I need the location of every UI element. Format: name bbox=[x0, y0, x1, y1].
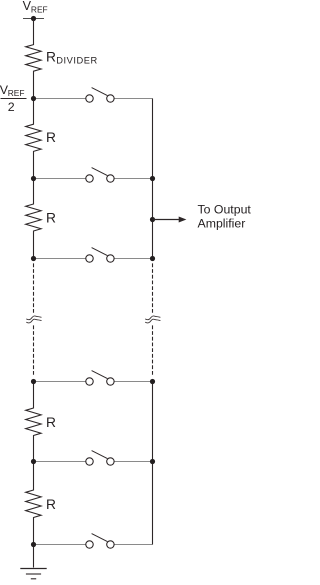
switch S2 bbox=[86, 168, 114, 183]
wire row1 left bbox=[34, 98, 86, 100]
svg-text:R: R bbox=[46, 415, 56, 430]
node VREF/2 junction dot bbox=[31, 96, 36, 101]
switch S5 bbox=[86, 451, 114, 466]
node left row6 junction dot bbox=[31, 542, 36, 547]
svg-text:REF: REF bbox=[31, 4, 48, 14]
node VREF label bbox=[23, 0, 48, 14]
svg-text:R: R bbox=[46, 497, 56, 512]
wire output arrow bbox=[153, 217, 187, 223]
node right row4 junction dot bbox=[150, 379, 155, 384]
node left row4 junction dot bbox=[31, 379, 36, 384]
wire row5 left bbox=[34, 461, 86, 463]
wire left rail with R zigzags (bottom section) bbox=[26, 382, 41, 568]
wire row3 right bbox=[114, 258, 152, 260]
node output junction dot bbox=[150, 217, 155, 222]
wire right rail solid (top section) bbox=[152, 99, 154, 259]
wire row2 left bbox=[34, 178, 86, 180]
svg-text:R: R bbox=[46, 211, 56, 226]
wire right rail dashed (upper) bbox=[152, 263, 154, 313]
node right row5 junction dot bbox=[150, 459, 155, 464]
wire row2 right bbox=[114, 178, 152, 180]
node output label bbox=[198, 203, 252, 231]
wire right rail dashed (lower) bbox=[152, 325, 154, 374]
node left row5 junction dot bbox=[31, 459, 36, 464]
wire row5 right bbox=[114, 461, 152, 463]
wire row4 left bbox=[34, 381, 86, 383]
VREF terminal tick bbox=[23, 18, 44, 20]
switch S3 bbox=[86, 248, 114, 263]
wire left rail dashed (upper) bbox=[33, 263, 35, 313]
break squiggle right bbox=[145, 316, 160, 323]
wire left rail with resistor RDIVIDER zigzag, R zigzags (top section) bbox=[26, 19, 41, 259]
switch S1 bbox=[86, 88, 114, 103]
ground bbox=[20, 569, 46, 579]
svg-text:R: R bbox=[46, 130, 56, 145]
node left row3 junction dot bbox=[31, 256, 36, 261]
node right row2 junction dot bbox=[150, 176, 155, 181]
wire left rail dashed (lower) bbox=[33, 325, 35, 374]
node VREF junction dot bbox=[31, 16, 36, 21]
node VREF/2 label bbox=[0, 83, 26, 114]
wire row4 right bbox=[114, 381, 152, 383]
wire right rail solid (bottom section) bbox=[152, 382, 154, 545]
wire row6 left bbox=[34, 544, 86, 546]
wire row3 left bbox=[34, 258, 86, 260]
svg-text:REF: REF bbox=[8, 88, 25, 98]
svg-text:Amplifier: Amplifier bbox=[198, 217, 246, 231]
wire row1 right bbox=[114, 98, 152, 100]
svg-text:To Output: To Output bbox=[198, 203, 252, 217]
break squiggle left bbox=[26, 316, 41, 323]
node right row3 junction dot bbox=[150, 256, 155, 261]
svg-text:2: 2 bbox=[8, 100, 15, 114]
wire row6 right bbox=[114, 544, 152, 546]
resistor RDIVIDER label bbox=[46, 50, 98, 66]
svg-text:DIVIDER: DIVIDER bbox=[56, 56, 98, 66]
svg-text:R: R bbox=[46, 50, 56, 65]
switch S4 bbox=[86, 371, 114, 386]
node left row2 junction dot bbox=[31, 176, 36, 181]
switch S6 bbox=[86, 534, 114, 549]
